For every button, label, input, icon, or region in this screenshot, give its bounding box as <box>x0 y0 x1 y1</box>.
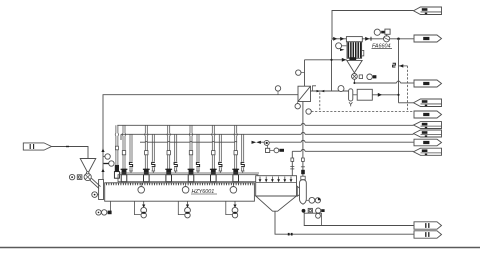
header2 left bend <box>120 134 122 140</box>
under drum left cluster <box>110 201 112 212</box>
station 1 drop 2 <box>129 134 131 171</box>
station 1 drop from header1 <box>122 125 124 133</box>
signal dashed valve to C5 line <box>319 93 321 112</box>
instrument circle drain 2 <box>316 213 321 218</box>
off-page connector C2 <box>414 35 442 42</box>
under drum station 2 <box>178 201 190 218</box>
nozzle tie line <box>119 172 259 174</box>
vessel dark label <box>349 57 356 60</box>
station 5 solenoid valve <box>211 169 216 175</box>
station 3 union fitting <box>167 151 170 155</box>
instrument circle heater left <box>296 70 301 75</box>
station 1 nozzle box <box>121 175 127 182</box>
wire vessel inlet <box>332 38 347 40</box>
wire bypass riser x398.5 <box>398 39 400 103</box>
drum hatch marks <box>106 183 108 185</box>
station 1 solenoid valve <box>122 169 127 175</box>
wire top header to connector C1 <box>332 11 414 41</box>
off-page connector C7 <box>414 130 442 137</box>
discharge box top band <box>256 182 297 184</box>
station 4 solenoid valve <box>189 169 194 175</box>
station 3 S label <box>173 162 178 168</box>
wire drum exhaust suction line <box>103 95 298 180</box>
instrument circle vessel discharge <box>367 74 373 80</box>
station 3 nozzle box <box>166 175 172 182</box>
dryer drum HZY6001 body <box>105 183 255 201</box>
wire vertical main air line x332 <box>331 40 333 91</box>
vessel cone <box>347 60 362 72</box>
signal dashed x407.5 <box>407 66 409 112</box>
instrument circle riser signal <box>306 109 311 114</box>
wire bag filter riser <box>302 102 304 117</box>
station 4 union fitting <box>189 151 192 155</box>
wire C9 product line down <box>291 151 293 175</box>
station 2 drop 2 <box>151 134 153 171</box>
station 4 drop 2 <box>196 134 198 171</box>
wire heated air to cone <box>305 59 347 61</box>
junction dot bypass <box>397 38 400 41</box>
drum feed box <box>99 180 104 200</box>
station 1 S label <box>129 162 134 168</box>
manifold band <box>118 175 258 182</box>
instrument circle exhaust 2 <box>109 161 114 166</box>
wire vessel outlet to C2 <box>362 38 413 40</box>
wire bus header2 C7 <box>121 133 301 135</box>
instrument circle vessel left <box>336 43 342 49</box>
station 4 nozzle box <box>188 175 194 182</box>
wire bus product C9 <box>292 150 301 152</box>
wire feed line <box>52 147 89 159</box>
off-page connector C4 <box>414 99 442 107</box>
pump capsule <box>349 89 353 101</box>
off-page connector C8 <box>414 139 442 146</box>
arrows on exhaust riser <box>101 148 104 152</box>
arrow + 2 label <box>399 65 408 67</box>
station 6 union fitting <box>234 151 237 155</box>
wire heater top riser <box>304 60 306 86</box>
off-page connector C1 <box>414 7 442 15</box>
station 5 S label <box>218 162 223 168</box>
junction marks on C11 line <box>288 233 290 236</box>
feed hopper funnel <box>80 159 96 173</box>
blower box EA <box>357 89 372 100</box>
filter drain valve <box>302 209 306 213</box>
instrument circle right <box>274 148 279 153</box>
vessel side tab <box>362 50 364 56</box>
discharge funnel <box>256 196 297 211</box>
reducer discharge box to capsule <box>297 186 300 196</box>
station 2 drop from header1 <box>144 125 146 133</box>
station 2 nozzle box <box>144 175 150 182</box>
station 6 S label <box>240 162 245 168</box>
off-page connector C6 <box>414 122 442 129</box>
enclosure box <box>304 213 321 225</box>
square instrument feeder <box>77 175 82 180</box>
wire filter drain to C10 <box>304 213 414 226</box>
instrument circle on suction line <box>275 86 280 91</box>
off-page connector C3 <box>414 80 442 87</box>
bag filter capsule <box>300 180 307 204</box>
station 1 union fitting <box>122 151 125 155</box>
off-page connector C10 <box>414 222 442 229</box>
vessel FA6604 hatched body <box>347 42 362 59</box>
control valve on line3 <box>252 141 257 144</box>
station 3 drop from header1 <box>167 125 169 133</box>
signal dashed to C5 <box>311 111 413 113</box>
vessel FA6604 top box <box>346 37 362 42</box>
instrument circle on line3 <box>264 140 269 145</box>
rotary valve under cone <box>352 74 358 80</box>
station 3 solenoid valve <box>166 169 171 175</box>
station 4 S label <box>196 162 201 168</box>
off-page connector C9 <box>414 148 442 155</box>
wire vessel discharge to C3 <box>354 79 396 83</box>
station 6 drop 2 <box>241 134 243 171</box>
header1 end drop <box>115 125 117 133</box>
bag filter top cap <box>301 176 305 179</box>
air heater box with diagonal <box>298 86 311 101</box>
station 6 drop from header1 <box>234 125 236 133</box>
station 3 drop 2 <box>174 134 176 171</box>
small box right of rotary valve <box>359 75 362 79</box>
station 5 union fitting <box>212 151 215 155</box>
feed chute diagonal <box>90 180 100 189</box>
valve on outlet <box>384 36 390 42</box>
station 2 solenoid valve <box>144 169 149 175</box>
instrument circle exhaust 1 <box>105 154 110 159</box>
drum sight circles <box>138 187 145 194</box>
station 2 S label <box>151 162 156 168</box>
wire bus line3 C8 <box>140 141 145 143</box>
instrument circle feeder 1 <box>69 174 74 179</box>
station 5 drop 2 <box>218 134 220 171</box>
control valve dark <box>317 90 321 92</box>
station 6 nozzle box <box>233 175 239 182</box>
wire blower outlet <box>372 94 398 96</box>
off-page connector C5 <box>414 111 442 118</box>
wire discharge to C11 <box>275 211 414 234</box>
instrument circle filter 2 <box>315 198 320 203</box>
wire bus header1 C6 <box>117 124 301 126</box>
instrument circle feed box <box>92 192 98 198</box>
strainer Y below pump <box>349 102 351 106</box>
station 6 solenoid valve <box>233 169 238 175</box>
discharge box body <box>256 176 297 196</box>
drain square instrument <box>308 208 312 212</box>
wire to C4 <box>399 102 414 104</box>
instrument circle heater bottom <box>295 104 300 109</box>
rotary feeder <box>84 173 91 180</box>
instrument circle drain 1 <box>316 208 321 213</box>
square instrument under line3 <box>266 148 270 152</box>
feed connector flag left <box>23 143 51 150</box>
station 2 union fitting <box>145 151 148 155</box>
wire heater outlet to blower <box>311 90 349 92</box>
station 5 drop from header1 <box>211 125 213 133</box>
station 4 drop from header1 <box>189 125 191 133</box>
under drum station 1 <box>135 201 147 218</box>
station 5 nozzle box <box>211 175 217 182</box>
sheet border line <box>0 247 480 249</box>
instrument circle blower <box>338 86 344 92</box>
under drum station 3 <box>226 201 238 218</box>
off-page connector C11 <box>414 231 442 238</box>
instrument circle outlet <box>374 29 380 35</box>
instrument circle filter 1 <box>309 197 315 203</box>
